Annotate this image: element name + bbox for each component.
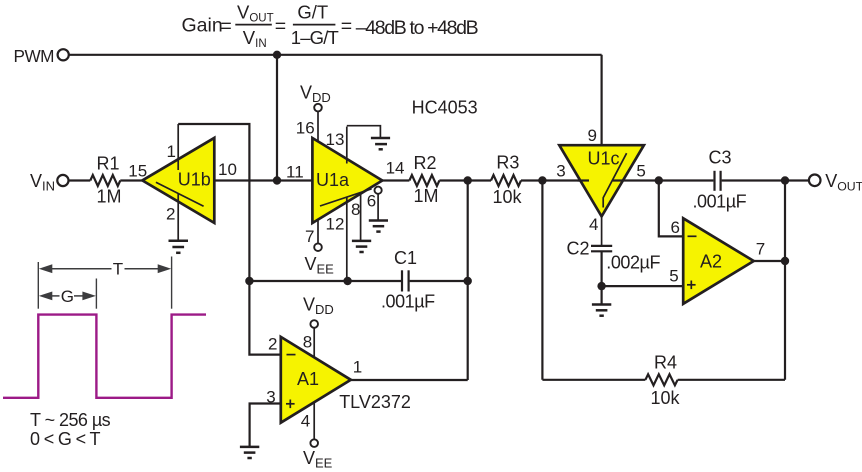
svg-text:C3: C3 [709, 147, 732, 167]
svg-text:1: 1 [353, 358, 362, 377]
U1a pin 12 stub to C1 row [346, 197, 348, 281]
node C2 ground junction [597, 282, 605, 290]
svg-text:=: = [220, 15, 231, 37]
waveform tick middle [95, 279, 97, 309]
svg-text:12: 12 [326, 215, 345, 234]
svg-text:R4: R4 [654, 353, 677, 373]
ground at U1a pin 8 [352, 241, 371, 252]
wire C3 to V_OUT [722, 179, 809, 181]
U1c switch wiper line [603, 153, 626, 207]
node A2 output junction [781, 257, 789, 265]
svg-text:=: = [341, 15, 352, 37]
op-amp A2 [683, 218, 754, 303]
svg-text:0 < G < T: 0 < G < T [30, 429, 101, 449]
svg-text:T ~ 256 µs: T ~ 256 µs [30, 410, 111, 430]
svg-text:R1: R1 [97, 154, 120, 174]
U1a pin 8 stub [360, 194, 362, 240]
U1c pin 3 inner stub [578, 179, 590, 181]
dimension T arrow left line [50, 268, 112, 270]
wire U1a pin 6 to ground [377, 194, 379, 220]
svg-text:A2: A2 [700, 251, 722, 271]
ground at U1a pin 6 [369, 221, 388, 232]
U1a switch wiper line [320, 189, 372, 206]
ground at U1a pin 13 [371, 138, 390, 149]
ground at U1b pin 2 [169, 241, 189, 253]
svg-text:1–G/T: 1–G/T [291, 27, 339, 48]
wire A2 output to V_OUT row vertical [784, 181, 786, 262]
dimension T arrow left head [39, 264, 53, 273]
svg-text:9: 9 [588, 126, 597, 145]
wire A1 pin 3 to ground [250, 404, 281, 447]
wire U1a pin 14 to R2 [382, 179, 409, 181]
wire R4 left segment [542, 379, 645, 381]
wire PWM to signal row vertical [276, 55, 278, 181]
capacitor C1 [402, 270, 409, 291]
dimension G arrow right head [82, 292, 96, 301]
svg-text:11: 11 [286, 162, 304, 181]
wire V_IN to R1 [69, 179, 91, 181]
dimension G arrow left head [39, 292, 53, 301]
U1b switch wiper line [156, 182, 204, 206]
wire R4 right segment [678, 379, 785, 381]
PWM terminal [58, 49, 69, 60]
wire R2 to node [439, 179, 491, 181]
gain formula fraction bar 2 [293, 24, 336, 26]
svg-text:=: = [275, 15, 286, 37]
wire R3 node to R4 vertical [541, 181, 543, 380]
U1c pin 4 stub to C2 [601, 216, 603, 245]
V_OUT terminal [809, 175, 821, 187]
svg-text:4: 4 [589, 215, 598, 234]
wire A2 pin 6 from output row [659, 181, 683, 237]
svg-text:A1: A1 [297, 369, 319, 389]
waveform tick left [37, 262, 39, 309]
U1a pin 7 stub [317, 219, 319, 243]
node V_OUT junction [781, 176, 789, 184]
svg-text:15: 15 [128, 161, 147, 180]
gain formula fraction bar 1 [235, 24, 271, 26]
U1a pin 13 stub [346, 127, 348, 164]
node C1 right junction [464, 277, 472, 285]
svg-text:TLV2372: TLV2372 [339, 392, 411, 412]
node PWM junction [273, 51, 281, 59]
wire C1 right to vertical [410, 280, 468, 282]
node R2 R3 junction [464, 176, 472, 184]
analog switch U1c [559, 145, 644, 216]
svg-text:10k: 10k [493, 187, 523, 207]
svg-text:14: 14 [386, 159, 405, 178]
svg-text:1M: 1M [414, 186, 439, 206]
wire C1 row [249, 280, 401, 282]
capacitor C3 [715, 171, 721, 191]
A2 minus sign [688, 235, 697, 237]
svg-text:C2: C2 [567, 239, 590, 259]
V_DD supply circle U1a [314, 104, 322, 112]
dimension T arrow right head [158, 264, 172, 273]
wire A1 output horizontal [351, 379, 468, 381]
svg-text:Gain: Gain [182, 15, 223, 37]
node C1 row left junction [245, 277, 253, 285]
svg-text:G: G [61, 287, 74, 306]
svg-text:G/T: G/T [297, 1, 328, 22]
svg-text:2: 2 [268, 335, 277, 354]
wire vertical R2 node to A1 output [467, 181, 469, 381]
ground at C2 [592, 305, 611, 316]
svg-text:4: 4 [301, 412, 310, 431]
svg-text:13: 13 [326, 130, 345, 149]
U1b pin 1 stub [177, 124, 179, 170]
svg-text:–48dB to +48dB: –48dB to +48dB [356, 17, 478, 39]
V_EE supply circle U1a [314, 243, 322, 251]
svg-text:8: 8 [303, 333, 312, 352]
svg-text:2: 2 [166, 205, 175, 224]
A1 pin 4 stub [313, 403, 315, 440]
svg-text:6: 6 [671, 218, 680, 237]
svg-text:10k: 10k [651, 388, 681, 408]
svg-text:6: 6 [367, 191, 376, 210]
dimension G arrow right line [74, 295, 84, 297]
waveform tick right [171, 257, 173, 309]
svg-text:8: 8 [351, 200, 360, 219]
wire U1a pin 13 to ground [347, 126, 381, 138]
svg-text:3: 3 [556, 161, 565, 180]
resistor R2 [409, 175, 439, 186]
svg-text:.002µF: .002µF [606, 253, 660, 273]
op-amp A1 [281, 337, 351, 423]
waveform square wave [3, 315, 206, 398]
wire A2 output to R4 vertical [784, 261, 786, 380]
svg-text:.001µF: .001µF [381, 292, 435, 312]
resistor R3 [491, 175, 521, 186]
capacitor C2 [591, 246, 612, 251]
wire U1b output to U1a pin 11 [214, 179, 330, 181]
wire A2 output [754, 260, 785, 262]
A1 minus sign [287, 354, 296, 356]
svg-text:PWM: PWM [14, 46, 55, 66]
U1c pin 5 stub and output wire [613, 179, 714, 181]
wire PWM horizontal [69, 54, 602, 56]
U1a pin 6 inverter bubble [375, 187, 382, 194]
A2 plus sign [687, 281, 696, 290]
resistor R4 [645, 374, 677, 385]
node C1 row U1a pin12 junction [343, 277, 351, 285]
A1 plus sign [286, 400, 295, 409]
svg-text:5: 5 [636, 161, 645, 180]
svg-text:HC4053: HC4053 [412, 98, 478, 118]
node signal row junction at U1b output [273, 176, 281, 184]
U1a pin 16 stub [317, 111, 319, 141]
wire C2 to ground node [600, 251, 602, 303]
svg-text:7: 7 [756, 240, 765, 259]
wire C2 node to A2 pin 5 [602, 285, 684, 287]
svg-text:U1c: U1c [588, 149, 620, 169]
svg-text:7: 7 [305, 227, 314, 246]
V_DD supply circle A1 [310, 320, 318, 328]
svg-text:R3: R3 [496, 152, 519, 172]
A1 pin 8 stub [313, 328, 315, 358]
analog switch U1a [312, 138, 382, 223]
wire U1b feedback frame [178, 124, 281, 355]
svg-text:16: 16 [296, 118, 315, 137]
svg-text:C1: C1 [394, 248, 417, 268]
ground at A1 pin 3 [240, 447, 259, 458]
wire R1 to U1b pin 15 [120, 179, 142, 181]
V_EE supply circle A1 [310, 439, 318, 447]
svg-text:T: T [113, 260, 123, 279]
svg-text:U1b: U1b [178, 169, 211, 189]
svg-text:5: 5 [669, 266, 678, 285]
wire R3 to U1c pin 3 [521, 179, 589, 181]
analog switch U1b [142, 138, 214, 223]
svg-text:10: 10 [218, 160, 237, 179]
svg-text:R2: R2 [414, 153, 437, 173]
svg-text:1M: 1M [97, 187, 122, 207]
V_IN terminal [57, 175, 68, 186]
dimension T arrow right line [125, 268, 161, 270]
node U1c output junction [655, 176, 663, 184]
wire U1c pin9 vertical [600, 55, 602, 145]
dimension G arrow left line [50, 295, 60, 297]
node R3 U1c junction [538, 176, 546, 184]
resistor R1 [90, 175, 120, 186]
svg-text:U1a: U1a [316, 170, 350, 190]
svg-text:.001µF: .001µF [693, 192, 747, 212]
U1b pin 2 stub [177, 194, 179, 242]
svg-text:1: 1 [167, 142, 176, 161]
